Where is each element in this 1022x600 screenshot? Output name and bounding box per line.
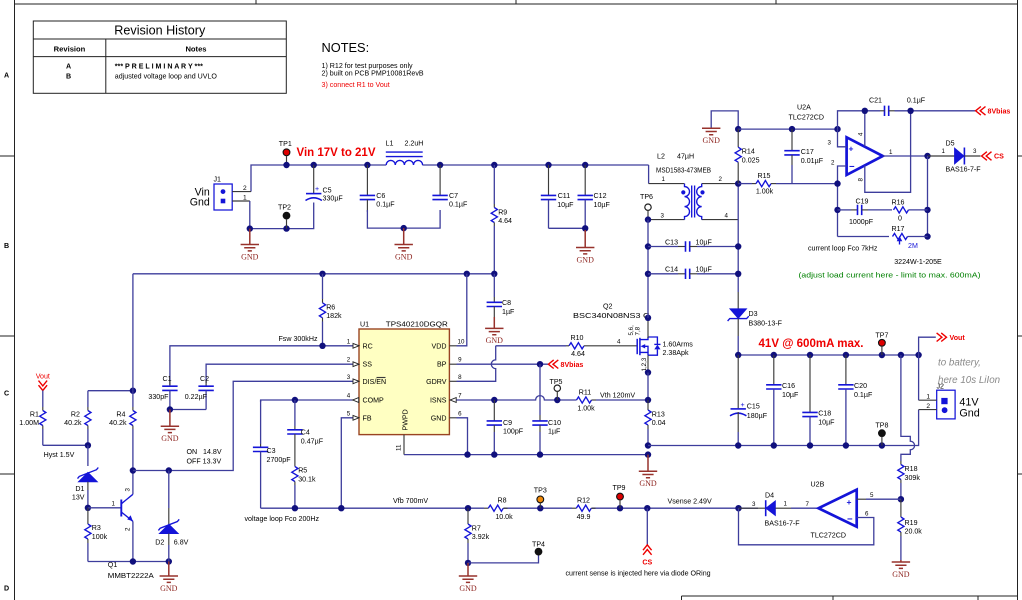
svg-text:+: +: [847, 497, 852, 507]
wire C11/C12 ground rail: [549, 227, 586, 229]
svg-text:BAS16-7-F: BAS16-7-F: [765, 520, 801, 528]
svg-text:D2: D2: [155, 539, 164, 547]
offpage connector Vout (left): [36, 373, 50, 408]
svg-text:4: 4: [347, 393, 351, 400]
node TP7: [879, 352, 885, 358]
svg-text:R2: R2: [71, 410, 80, 418]
svg-text:5: 5: [347, 410, 351, 417]
wire COMP row: [261, 400, 353, 402]
svg-text:C1: C1: [162, 375, 171, 383]
wire C6/C7 ground rail: [367, 210, 440, 228]
resistor R10: [566, 334, 637, 358]
node pin3 riser: [834, 126, 840, 132]
node R13 gnd: [645, 451, 651, 457]
svg-text:1.00k: 1.00k: [577, 404, 595, 412]
svg-text:49.9: 49.9: [577, 513, 591, 521]
svg-text:D5: D5: [946, 139, 955, 147]
svg-text:2: 2: [926, 403, 930, 410]
node gnd corner: [247, 225, 253, 231]
svg-text:182k: 182k: [326, 312, 342, 320]
capacitor C3: [253, 400, 291, 508]
svg-text:6: 6: [458, 410, 462, 417]
offpage connector 8Vbias (mid): [548, 360, 583, 369]
node C6/rail: [364, 162, 370, 168]
svg-text:C11: C11: [558, 192, 571, 200]
svg-text:TP9: TP9: [612, 484, 625, 492]
node R9/C8: [491, 271, 497, 277]
svg-text:B: B: [4, 242, 9, 250]
resistor R1: [19, 407, 46, 445]
resistor R12: [572, 497, 596, 521]
svg-text:(adjust load current here - li: (adjust load current here - limit to max…: [799, 271, 981, 279]
resistor R11: [577, 389, 649, 413]
capacitor C2: [185, 375, 214, 410]
wire SS row: [206, 364, 352, 383]
svg-text:10µF: 10µF: [696, 238, 713, 246]
svg-text:C15: C15: [747, 403, 760, 411]
svg-text:3: 3: [828, 140, 832, 147]
node C7/rail: [437, 162, 443, 168]
svg-text:R12: R12: [577, 497, 590, 505]
wire R1 to R2 bottom: [43, 444, 88, 446]
wire pin8 supply loop: [865, 111, 911, 193]
wire pin5: [857, 498, 901, 500]
svg-text:4.64: 4.64: [571, 350, 585, 358]
svg-text:5: 5: [870, 492, 874, 499]
svg-text:R7: R7: [472, 524, 481, 532]
svg-text:1.60Arms: 1.60Arms: [663, 340, 694, 348]
node Q1 base: [85, 505, 91, 511]
svg-text:1: 1: [243, 194, 247, 201]
mosfet Q2: [573, 302, 693, 371]
svg-text:1.00M: 1.00M: [19, 419, 39, 427]
node R14/pin2: [735, 180, 741, 186]
opamp U2B: [811, 481, 875, 540]
svg-text:4.64: 4.64: [498, 217, 512, 225]
svg-text:TLC272CD: TLC272CD: [789, 114, 824, 122]
svg-text:3) connect R1 to Vout: 3) connect R1 to Vout: [322, 81, 390, 89]
wire divider drop with jog and hop: [901, 355, 915, 461]
resistor R5: [292, 446, 316, 508]
svg-text:Revision History: Revision History: [114, 24, 206, 38]
svg-text:voltage loop Fco 200Hz: voltage loop Fco 200Hz: [245, 515, 320, 523]
svg-text:3.92k: 3.92k: [472, 533, 490, 541]
svg-text:Vin 17V to 21V: Vin 17V to 21V: [297, 146, 376, 159]
svg-text:PWPD: PWPD: [402, 409, 410, 430]
node J2 riser: [915, 352, 921, 358]
connector J1: [190, 176, 251, 211]
svg-text:3224W-1-205E: 3224W-1-205E: [894, 258, 942, 266]
ground below C6/C7: [395, 228, 413, 261]
node R9/rail: [491, 162, 497, 168]
svg-text:0.01µF: 0.01µF: [801, 157, 824, 165]
node C1 gnd: [167, 406, 173, 412]
svg-text:C21: C21: [869, 97, 882, 105]
testpoint TP7: [875, 331, 888, 355]
svg-text:R11: R11: [579, 389, 592, 397]
node C20 top: [843, 352, 849, 358]
svg-text:Gnd: Gnd: [190, 197, 210, 209]
wire RC row: [170, 346, 353, 385]
svg-text:1: 1: [926, 393, 930, 400]
capacitor C15 (polarized): [730, 355, 768, 446]
transformer L2: [648, 153, 738, 220]
offpage connector CS (bottom): [642, 508, 652, 566]
svg-text:U2B: U2B: [811, 481, 825, 489]
svg-text:0.22µF: 0.22µF: [185, 393, 208, 401]
node output: [924, 153, 930, 159]
svg-text:VDD: VDD: [432, 342, 447, 350]
svg-text:GDRV: GDRV: [426, 378, 447, 386]
ground below J1: [241, 229, 259, 262]
svg-text:C18: C18: [818, 410, 831, 418]
svg-text:MSD1583-473MEB: MSD1583-473MEB: [656, 166, 711, 174]
svg-text:2) built on PCB PMP10081RevB: 2) built on PCB PMP10081RevB: [322, 70, 424, 78]
svg-text:3: 3: [125, 488, 132, 492]
svg-text:10µF: 10µF: [557, 201, 574, 209]
svg-text:2: 2: [125, 527, 132, 531]
revision history table: [33, 21, 286, 93]
testpoint TP8: [875, 421, 888, 445]
wire base: [88, 507, 121, 509]
svg-text:R17: R17: [891, 225, 904, 233]
node ISNS/C9: [491, 397, 497, 403]
svg-text:1: 1: [662, 176, 666, 183]
wire rail to L2 pin1: [648, 165, 650, 184]
ground below R13: [639, 455, 657, 488]
svg-text:TP8: TP8: [875, 421, 888, 429]
svg-text:L1: L1: [386, 140, 394, 148]
node ON/OFF: [130, 467, 136, 473]
svg-text:D: D: [4, 585, 9, 593]
offpage connector 8Vbias (top right): [976, 107, 1011, 116]
node C10 bottom: [537, 451, 543, 457]
node C16 bottom: [771, 442, 777, 448]
svg-text:8: 8: [458, 374, 462, 381]
capacitor C6: [360, 165, 396, 212]
wire ON/OFF node to DIS riser: [133, 381, 353, 470]
svg-text:0.1µF: 0.1µF: [854, 391, 873, 399]
node drain: [645, 315, 651, 321]
node C21 left: [862, 108, 868, 114]
svg-text:BSC340N08NS3 G: BSC340N08NS3 G: [573, 312, 650, 320]
wire C21 top row: [838, 111, 976, 129]
svg-text:+: +: [315, 185, 319, 193]
svg-text:1: 1: [942, 148, 946, 155]
svg-text:2: 2: [719, 176, 723, 183]
svg-text:R1: R1: [30, 410, 39, 418]
svg-text:0.47µF: 0.47µF: [301, 438, 324, 446]
testpoint TP5: [549, 378, 562, 400]
svg-text:to battery,: to battery,: [938, 357, 981, 368]
svg-text:Gnd: Gnd: [959, 407, 979, 419]
node R14 top: [735, 126, 741, 132]
svg-text:10µF: 10µF: [818, 418, 835, 426]
svg-text:3: 3: [661, 212, 665, 219]
wire pin2 riser: [838, 166, 847, 237]
node C4/COMP: [292, 397, 298, 403]
svg-text:3: 3: [752, 501, 756, 508]
svg-text:R3: R3: [92, 524, 101, 532]
wire left riser to VDD rail: [132, 274, 134, 391]
capacitor C7: [432, 165, 468, 209]
svg-text:Vout: Vout: [950, 334, 966, 342]
svg-text:10µF: 10µF: [594, 201, 611, 209]
wire pin3 riser: [838, 129, 847, 147]
wire pin4 supply: [864, 111, 866, 147]
resistor R7: [465, 508, 490, 563]
capacitor C21: [869, 97, 926, 116]
svg-text:C13: C13: [665, 238, 678, 246]
node C21 right: [907, 108, 913, 114]
capacitor C9: [487, 400, 524, 455]
svg-text:R4: R4: [116, 410, 125, 418]
resistor R15: [738, 172, 837, 196]
wire Q2 source lead: [647, 355, 649, 372]
svg-text:0.1µF: 0.1µF: [907, 97, 926, 105]
testpoint TP4: [532, 540, 545, 555]
svg-text:10µF: 10µF: [782, 391, 799, 399]
svg-text:0.04: 0.04: [652, 419, 666, 427]
svg-text:8Vbias: 8Vbias: [561, 361, 584, 369]
svg-text:L2: L2: [657, 153, 665, 161]
diode D3: [728, 292, 783, 355]
svg-text:10: 10: [458, 338, 465, 345]
svg-text:2M: 2M: [908, 242, 918, 250]
notes text: [322, 40, 424, 89]
capacitor C20: [838, 355, 873, 446]
svg-text:309k: 309k: [905, 474, 921, 482]
svg-text:7: 7: [806, 501, 810, 508]
svg-text:40.2k: 40.2k: [109, 419, 127, 427]
node C15 bottom: [735, 442, 741, 448]
node CS drop: [644, 505, 650, 511]
node R6/RC: [319, 343, 325, 349]
svg-text:10.0k: 10.0k: [495, 513, 513, 521]
svg-text:R10: R10: [570, 334, 583, 342]
svg-text:Vfb 700mV: Vfb 700mV: [393, 497, 428, 505]
svg-text:J2: J2: [937, 383, 945, 391]
svg-text:C20: C20: [854, 382, 867, 390]
svg-text:1.00k: 1.00k: [756, 188, 774, 196]
svg-text:2.38Apk: 2.38Apk: [663, 349, 689, 357]
resistor R16: [891, 198, 927, 222]
zener D2: [155, 471, 188, 562]
wire FB riser: [341, 418, 352, 508]
wire opamp output: [883, 155, 928, 157]
svg-text:3: 3: [347, 374, 351, 381]
node TP1/rail: [283, 162, 289, 168]
svg-text:C19: C19: [855, 198, 868, 206]
svg-text:TPS40210DGQR: TPS40210DGQR: [386, 321, 448, 329]
svg-text:180µF: 180µF: [747, 412, 768, 420]
svg-text:40.2k: 40.2k: [64, 419, 82, 427]
capacitor C11: [541, 165, 574, 228]
node R5 bottom: [292, 505, 298, 511]
inductor L1: [386, 140, 424, 165]
node C5/rail: [311, 162, 317, 168]
svg-text:R13: R13: [652, 410, 665, 418]
wire output gnd rail: [648, 410, 919, 446]
svg-text:4: 4: [617, 338, 621, 345]
svg-text:330pF: 330pF: [148, 393, 169, 401]
resistor R13: [645, 400, 666, 446]
resistor R8: [484, 497, 513, 521]
svg-text:Vout: Vout: [36, 373, 50, 381]
svg-text:R9: R9: [498, 209, 507, 217]
svg-text:R8: R8: [497, 497, 506, 505]
svg-text:CS: CS: [642, 559, 652, 567]
svg-text:9: 9: [458, 357, 462, 364]
node C20 bottom: [843, 442, 849, 448]
svg-text:1: 1: [889, 149, 893, 156]
svg-text:6: 6: [865, 510, 869, 517]
pin stubs U1 right: [449, 338, 465, 418]
label to battery: [938, 357, 1000, 386]
svg-text:C6: C6: [376, 192, 385, 200]
opamp U2A: [789, 104, 894, 182]
svg-text:4: 4: [725, 212, 729, 219]
node C19 row left: [834, 207, 840, 213]
svg-text:Hyst 1.5V: Hyst 1.5V: [44, 451, 75, 459]
wire GDRV riser with hop: [457, 346, 496, 382]
svg-text:Q1: Q1: [108, 561, 118, 569]
diode D5: [928, 139, 982, 173]
zener D1: [72, 445, 98, 508]
svg-text:+: +: [741, 401, 745, 409]
capacitor C18: [802, 355, 835, 446]
node source: [645, 369, 651, 375]
svg-text:C14: C14: [665, 266, 678, 274]
svg-text:10µF: 10µF: [696, 266, 713, 274]
svg-text:FB: FB: [363, 414, 372, 422]
svg-text:Fsw 300kHz: Fsw 300kHz: [278, 335, 317, 343]
node R16 right: [924, 207, 930, 213]
ic U1 body: [359, 321, 449, 435]
resistor R3: [85, 508, 108, 562]
wire drain column: [647, 220, 649, 318]
resistor R18: [898, 461, 921, 499]
svg-text:TP5: TP5: [549, 378, 562, 386]
wire VDD rail: [133, 273, 494, 275]
node TP5: [554, 397, 560, 403]
svg-text:R6: R6: [326, 304, 335, 312]
node TP3: [537, 505, 543, 511]
ground below Q1/D2: [160, 562, 178, 593]
svg-text:TP2: TP2: [278, 204, 291, 212]
resistor R2: [64, 391, 91, 446]
node C14 left: [645, 271, 651, 277]
wire J1 pin1 to ground rail: [250, 201, 314, 229]
connector J2: [919, 383, 980, 420]
wire R2/R4 top: [88, 390, 133, 392]
svg-text:J1: J1: [214, 176, 222, 184]
svg-text:TP6: TP6: [640, 193, 653, 201]
svg-text:D1: D1: [75, 485, 84, 493]
node divider tap: [898, 352, 904, 358]
svg-text:1: 1: [784, 501, 788, 508]
svg-text:C16: C16: [782, 382, 795, 390]
svg-text:−: −: [849, 162, 855, 173]
wire GND drop to R14 row: [711, 111, 738, 129]
node R4 top: [130, 388, 136, 394]
svg-text:0: 0: [898, 215, 902, 223]
svg-text:ISNS: ISNS: [430, 397, 447, 405]
svg-text:COMP: COMP: [363, 397, 385, 405]
svg-text:TP7: TP7: [875, 331, 888, 339]
svg-text:C12: C12: [594, 192, 607, 200]
svg-text:ON 14.8V: ON 14.8V: [187, 448, 222, 456]
pin stubs U1 left: [347, 338, 359, 420]
node R13/output rail: [645, 442, 651, 448]
capacitor C1: [148, 375, 177, 410]
testpoint TP3: [534, 486, 547, 508]
wire bottom gnd run: [88, 561, 169, 563]
node VDD riser: [464, 271, 470, 277]
svg-text:Notes: Notes: [185, 44, 206, 53]
svg-text:2: 2: [831, 160, 835, 167]
wire pin2/pin4 column: [737, 184, 739, 292]
svg-text:B: B: [66, 72, 71, 80]
svg-text:C7: C7: [449, 192, 458, 200]
wire VDD riser: [457, 274, 467, 346]
svg-text:11: 11: [396, 444, 403, 451]
svg-text:A: A: [4, 72, 9, 80]
node pin2/R15: [834, 180, 840, 186]
offpage connector CS (right): [982, 152, 1005, 161]
wire C1/C2 join: [170, 409, 206, 411]
node D2 bottom: [166, 558, 172, 564]
transistor Q1: [108, 471, 154, 581]
svg-text:Vth 120mV: Vth 120mV: [600, 391, 635, 399]
svg-text:100pF: 100pF: [503, 428, 524, 436]
svg-text:D4: D4: [765, 492, 774, 500]
wire Q2 drain lead: [647, 318, 649, 338]
wire GND pin row: [457, 418, 468, 455]
wire 41V rail: [738, 354, 918, 356]
svg-text:100k: 100k: [92, 533, 108, 541]
svg-text:B380-13-F: B380-13-F: [749, 319, 783, 327]
svg-text:TP4: TP4: [532, 540, 545, 548]
ground U2A area: [702, 128, 720, 145]
svg-text:13V: 13V: [72, 493, 85, 501]
wire input top rail: [251, 165, 649, 192]
svg-text:current sense is injected here: current sense is injected here via diode…: [566, 570, 711, 578]
node FB riser: [338, 505, 344, 511]
svg-text:C17: C17: [801, 148, 814, 156]
diode D4: [739, 492, 819, 528]
capacitor C17: [784, 129, 823, 184]
wire J2 pin1 riser: [918, 355, 920, 400]
svg-text:41V @ 600mA max.: 41V @ 600mA max.: [759, 336, 864, 350]
node R17 right: [924, 233, 930, 239]
svg-text:R19: R19: [905, 519, 918, 527]
testpoint TP2: [278, 204, 291, 229]
wire pin6 feedback loop: [739, 508, 874, 545]
node R7 bottom: [465, 560, 471, 566]
svg-text:+: +: [849, 144, 854, 154]
svg-text:2700pF: 2700pF: [267, 456, 292, 464]
ground below C1/C2: [161, 410, 179, 444]
wire ISNS row with hop over C10: [457, 396, 577, 400]
svg-text:47µH: 47µH: [677, 153, 694, 161]
pin 11 stub: [396, 435, 405, 455]
node BP/C10: [537, 361, 543, 367]
svg-text:C3: C3: [267, 447, 276, 455]
ground below R19: [892, 560, 910, 579]
svg-text:2.2uH: 2.2uH: [405, 140, 424, 148]
resistor R6: [319, 274, 342, 346]
